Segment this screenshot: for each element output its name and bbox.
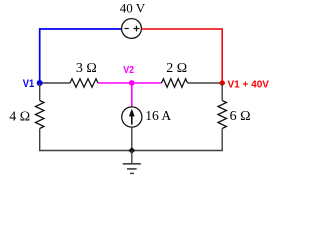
wire: gray right vertical from R4 to bottom rail: [221, 129, 223, 152]
svg-text:4 Ω: 4 Ω: [9, 109, 30, 124]
svg-text:2 Ω: 2 Ω: [166, 61, 187, 76]
wire: magenta vertical from node V2 down to current source: [131, 83, 133, 107]
ground symbol: [123, 151, 141, 174]
wire: gray from R2 to right node: [188, 82, 223, 84]
resistor R4 6ohm vertical zigzag: [218, 101, 227, 129]
node V1 junction dot (blue): [37, 80, 43, 86]
voltage source 40V (circle with - +): [122, 19, 142, 39]
svg-text:3 Ω: 3 Ω: [76, 61, 97, 76]
resistor R3 4ohm vertical zigzag: [35, 101, 44, 129]
resistor R1 3ohm zigzag: [70, 79, 98, 88]
wire: magenta from R1 to node V2 and on to R2: [98, 82, 162, 84]
svg-text:40 V: 40 V: [120, 1, 146, 16]
wire: red top horizontal from voltage source to top-right corner: [141, 28, 222, 30]
svg-text:6 Ω: 6 Ω: [230, 109, 251, 124]
wire: gray from node V1 to resistor R1: [40, 82, 70, 84]
wire: gray bottom rail: [40, 150, 223, 152]
current source 16A (circle with up arrow): [122, 107, 142, 127]
svg-text:V1 + 40V: V1 + 40V: [228, 79, 270, 91]
wire: gray right vertical from node to R4: [221, 83, 223, 101]
ground junction dot: [128, 147, 135, 154]
node V2 junction dot: [129, 80, 135, 86]
node V1+40V junction dot (red): [220, 80, 225, 85]
svg-text:V1: V1: [23, 78, 35, 90]
svg-text:V2: V2: [123, 64, 134, 76]
wire: gray vertical from current source to bottom rail: [131, 127, 133, 150]
wire: gray left vertical from V1 to resistor R3: [39, 83, 41, 101]
wire: blue top horizontal to voltage source: [39, 28, 122, 30]
wire: blue left vertical from top-left corner to node V1: [39, 29, 41, 83]
svg-text:16 A: 16 A: [145, 108, 171, 123]
resistor R2 2ohm zigzag: [162, 79, 188, 88]
wire: gray left vertical from R3 to bottom rail: [39, 129, 41, 152]
wire: red right vertical down to node V1+40V: [221, 28, 223, 83]
